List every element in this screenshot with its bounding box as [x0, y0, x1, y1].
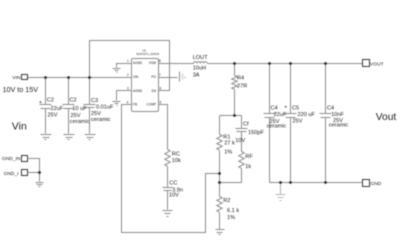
svg-text:10k: 10k [172, 158, 181, 164]
svg-text:C2: C2 [70, 97, 77, 103]
svg-text:27 k: 27 k [224, 140, 235, 146]
wire output bottom rail [270, 182, 363, 184]
svg-text:C2: C2 [47, 97, 54, 103]
svg-text:R2: R2 [223, 198, 230, 204]
svg-text:C3: C3 [91, 98, 98, 104]
wire divider top jog [220, 115, 242, 117]
svg-text:R4: R4 [237, 75, 244, 81]
pin 1 AGND wire [117, 64, 132, 68]
svg-text:GND_I: GND_I [4, 171, 19, 177]
terminal GND_I [22, 170, 28, 176]
capacitor C2 22uF branch [45, 78, 47, 134]
terminal GND_IN [22, 156, 28, 162]
svg-text:ceramic: ceramic [70, 119, 90, 125]
resistor RF 1k [239, 152, 244, 169]
resistor R2 6.1k branch [219, 183, 221, 197]
svg-text:CC: CC [169, 180, 177, 186]
svg-text:Cf: Cf [243, 121, 249, 127]
pin 8 VSW wire to inductor [159, 63, 194, 65]
svg-text:22uF: 22uF [274, 112, 287, 118]
svg-text:C4: C4 [271, 105, 278, 111]
inductor LOUT 10uH [194, 62, 208, 64]
svg-text:VOUT: VOUT [370, 61, 384, 67]
svg-text:7: 7 [159, 73, 161, 77]
svg-text:C4: C4 [327, 105, 334, 111]
node GND_I junction [38, 171, 41, 174]
svg-text:COMP: COMP [146, 103, 156, 107]
svg-text:6: 6 [160, 86, 162, 90]
svg-text:VIN: VIN [12, 75, 21, 81]
svg-text:1: 1 [127, 59, 129, 63]
svg-text:PG: PG [151, 75, 156, 79]
svg-text:25V: 25V [293, 118, 303, 124]
resistor RC 10k [165, 150, 170, 167]
node input rail junctions [44, 76, 47, 79]
svg-text:ceramic: ceramic [267, 124, 287, 130]
svg-text:+: + [39, 100, 42, 106]
wire output rail [208, 63, 363, 65]
svg-text:10V: 10V [235, 138, 245, 144]
ground pin3 [113, 102, 121, 106]
ground under CC [163, 211, 173, 217]
svg-text:22uF: 22uF [51, 106, 64, 112]
svg-text:10uH: 10uH [193, 66, 206, 72]
node output rail junctions [233, 62, 236, 65]
svg-text:VSW: VSW [149, 61, 156, 65]
terminal VOUT [363, 60, 370, 67]
wire GND_IN [28, 159, 40, 173]
pin 7 PG wire with no-connect [159, 77, 178, 79]
node FB junction [218, 172, 221, 175]
svg-text:NCP1571_SOIC8: NCP1571_SOIC8 [136, 52, 159, 56]
svg-text:RC: RC [172, 151, 180, 157]
node bottom rail junctions [279, 181, 282, 184]
svg-text:0.01uF: 0.01uF [96, 104, 114, 110]
capacitor C3 0.01uF branch [89, 78, 91, 134]
svg-text:Vin: Vin [12, 121, 27, 133]
svg-text:RF: RF [245, 154, 253, 160]
node divider top [233, 114, 236, 117]
svg-text:AGND: AGND [133, 61, 143, 65]
svg-text:AGND: AGND [133, 89, 143, 93]
wire GND_I [28, 173, 40, 182]
svg-text:25V: 25V [48, 113, 58, 119]
resistor R1 27k branch [219, 116, 221, 135]
IC U1 body [132, 59, 159, 112]
svg-text:ceramic: ceramic [329, 123, 349, 129]
svg-text:VIN: VIN [133, 75, 139, 79]
capacitor C5 220uF branch [290, 64, 292, 183]
svg-text:8: 8 [159, 59, 161, 63]
svg-text:GND: GND [370, 181, 381, 187]
svg-text:FB: FB [133, 103, 137, 107]
pin 3 AGND wire [117, 91, 132, 101]
svg-text:EN: EN [152, 89, 157, 93]
wire input rail VIN to pin2 [28, 77, 132, 79]
resistor R4 27R branch [234, 64, 236, 76]
svg-text:1%: 1% [227, 215, 235, 221]
terminal GND [363, 180, 370, 187]
ground pin1 [113, 69, 121, 73]
svg-text:LOUT: LOUT [193, 55, 209, 61]
ground under C2 10uF [64, 135, 75, 140]
svg-text:Vout: Vout [376, 112, 397, 123]
svg-text:4: 4 [127, 100, 129, 104]
svg-text:3: 3 [127, 86, 129, 90]
svg-text:1k: 1k [245, 164, 251, 170]
capacitor C2 10uF branch [68, 78, 70, 134]
pin 4 FB wire down and around [122, 105, 220, 233]
svg-text:GND_IN: GND_IN [2, 156, 21, 162]
node RF bottom junction [218, 181, 221, 184]
capacitor Cf branch [241, 116, 243, 129]
wire EN loop from input rail over the top to EN pin [90, 41, 170, 91]
svg-text:3A: 3A [193, 72, 200, 78]
terminal VIN [22, 75, 28, 80]
svg-text:10 uF: 10 uF [72, 106, 87, 112]
ground under C3 [85, 135, 96, 140]
ground on output rail [280, 183, 282, 195]
capacitor C4 10nF branch [325, 64, 327, 183]
svg-text:10V: 10V [169, 192, 179, 198]
svg-text:10V to 15V: 10V to 15V [3, 85, 39, 94]
svg-text:220 uF: 220 uF [298, 112, 316, 118]
svg-text:150pF: 150pF [248, 130, 264, 136]
svg-text:6.1 k: 6.1 k [227, 208, 239, 214]
pin 5 COMP wire [159, 105, 168, 150]
ground GND_I [36, 183, 44, 187]
svg-text:27R: 27R [237, 84, 247, 90]
capacitor C4 22uF out branch [269, 64, 271, 183]
ground under R2 [216, 230, 225, 235]
svg-text:5: 5 [160, 100, 162, 104]
svg-text:2: 2 [127, 73, 129, 77]
capacitor CC plates [163, 188, 173, 191]
svg-text:R1: R1 [223, 134, 230, 140]
svg-text:1%: 1% [224, 149, 232, 155]
svg-text:ceramic: ceramic [91, 117, 111, 123]
node PG no-connect dot [184, 77, 186, 79]
svg-text:+: + [284, 105, 287, 111]
svg-text:C5: C5 [292, 105, 299, 111]
ground under C2 [41, 135, 52, 140]
svg-text:10nF: 10nF [331, 112, 344, 118]
